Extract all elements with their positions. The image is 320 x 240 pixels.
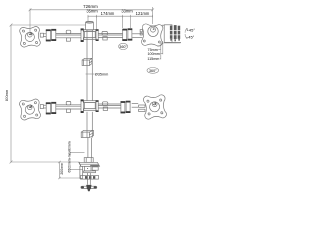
VESA plate row1 left: [20, 26, 41, 47]
clamp screw shaft: [88, 173, 91, 185]
tick x=130.3: [129, 15, 131, 18]
bolt right of block row2: [96, 100, 99, 112]
dimension second row line: [88, 15, 153, 17]
arm row2 right coupler: [121, 101, 131, 114]
side view rail top line: [162, 24, 165, 26]
VESA plate row2 right: [143, 95, 167, 120]
arm row2 left hinge knob: [66, 101, 71, 112]
plate row1 left hub tab: [40, 33, 46, 37]
side view rail gap lower: [170, 34, 181, 37]
arm row2 left coupler: [46, 102, 56, 115]
extension line x130.3: [129, 16, 131, 28]
svg-text:115mm: 115mm: [147, 57, 159, 61]
VESA plate row2 left: [19, 99, 41, 121]
side view left tab: [140, 30, 142, 35]
plate row2 right connector: [139, 105, 145, 112]
arm row1 left coupler: [46, 29, 56, 41]
tick x=96.5: [96, 15, 98, 18]
tick x=152.6: [152, 15, 154, 18]
extension line plate1 center: [29, 9, 31, 33]
bolt left of block row2: [81, 99, 84, 113]
svg-text:Ø35mm: Ø35mm: [95, 73, 109, 77]
side view rail bar 2: [174, 25, 177, 39]
svg-text:360°: 360°: [119, 45, 127, 49]
svg-text:800mm: 800mm: [5, 90, 9, 101]
clamp top plate: [79, 162, 100, 166]
block row1 on pole: [84, 30, 96, 40]
arm row1 left hinge knob: [66, 30, 71, 41]
dimension 200mm vertical: [59, 162, 61, 178]
clamp top plate shade: [90, 165, 99, 166]
arm row1 right coupler: [122, 28, 132, 41]
arm row1 left bar: [56, 34, 81, 38]
tilt arrows: [185, 28, 187, 38]
extension line x122.6: [122, 16, 124, 28]
clamp T handle: [81, 185, 97, 191]
clamp lower arm: [84, 171, 96, 173]
rotation 360 oval row1: [119, 43, 128, 49]
side view bottom hook: [157, 41, 163, 46]
arm row1 right bar: [98, 34, 142, 38]
side view bracket outer plate: [164, 25, 172, 43]
tick x=122.6: [122, 15, 124, 18]
extension line x96.5: [96, 16, 98, 29]
pole middle tube: [87, 112, 92, 138]
clamp pole socket: [84, 158, 93, 163]
side view rail gap upper: [170, 29, 181, 32]
svg-text:100mm: 100mm: [148, 52, 160, 56]
arm row2 right bar: [98, 104, 138, 108]
dimension 800mm bottom extension: [11, 161, 80, 163]
extension line x88: [87, 16, 89, 21]
plate row2 left hub tab: [40, 105, 46, 109]
block row2 on pole: [84, 101, 96, 111]
dimension 200mm bottom extension: [60, 177, 82, 179]
arm row2 left bar: [56, 105, 81, 109]
dimension 726mm line: [30, 9, 153, 11]
svg-text:35mm: 35mm: [86, 8, 98, 13]
svg-text:33mm: 33mm: [121, 8, 133, 13]
clamp screw housing: [84, 166, 91, 171]
arm row2 right hinge knob: [102, 102, 107, 111]
pole collar lower: [81, 130, 93, 137]
extension line right end: [152, 7, 154, 24]
clamp max thickness bracket top: [70, 151, 85, 153]
bolt left of block row1: [81, 28, 84, 42]
tick x=88: [87, 15, 89, 18]
side view rail bar 1: [170, 26, 173, 39]
svg-text:121mm: 121mm: [136, 11, 150, 16]
pole upper tube: [87, 30, 92, 101]
clamp right tab: [92, 167, 98, 170]
rotation 360 oval pole: [147, 68, 159, 74]
pole diameter leader: [86, 73, 95, 75]
clamp back plate: [80, 166, 83, 178]
svg-text:360°: 360°: [149, 69, 157, 73]
bolt right of block row1: [96, 29, 99, 41]
arm row1 right hinge knob: [102, 31, 107, 40]
clamp max thickness bracket bottom: [70, 168, 83, 170]
dimension 800mm ticks: [10, 24, 13, 27]
dimension 200mm ticks: [58, 161, 60, 163]
dimension 800mm top extension: [11, 24, 86, 26]
svg-text:-45°: -45°: [187, 35, 195, 40]
svg-text:+45°: +45°: [187, 27, 196, 32]
clamp jaw dark pads: [85, 176, 95, 179]
pole top cap: [86, 21, 94, 30]
svg-text:174mm: 174mm: [101, 11, 115, 16]
side view rail bar 3: [178, 26, 181, 39]
pole collar upper: [82, 58, 92, 65]
side view rail bottom line: [164, 41, 181, 43]
side view ball housing: [148, 26, 158, 36]
svg-text:200mm: 200mm: [60, 163, 64, 175]
svg-text:65/20mm-max80mm: 65/20mm-max80mm: [67, 141, 71, 172]
side view plate assembly: [141, 24, 163, 47]
dimension 800mm vertical line: [10, 25, 12, 162]
pole lower tube: [88, 138, 92, 158]
clamp lower jaw: [81, 176, 99, 180]
side view rail feet: [170, 39, 172, 41]
vesa bracket lines: [158, 43, 180, 59]
